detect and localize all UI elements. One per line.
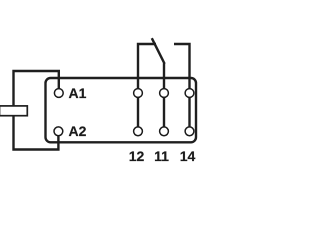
coil rectangle <box>0 106 27 116</box>
terminal 14 bottom <box>185 127 194 136</box>
terminal A2 <box>54 127 63 136</box>
svg-text:A2: A2 <box>69 123 87 139</box>
movable contact (diagonal) <box>152 38 165 64</box>
svg-text:12: 12 <box>129 148 145 164</box>
terminal 12 bottom <box>134 127 143 136</box>
svg-text:A1: A1 <box>69 85 87 101</box>
svg-text:11: 11 <box>154 148 169 164</box>
svg-text:14: 14 <box>180 148 196 164</box>
terminal 11 top <box>160 89 169 98</box>
wire coil loop A1-A2 <box>14 71 59 150</box>
terminal 12 top <box>134 89 143 98</box>
terminal A1 <box>54 89 63 98</box>
relay body outline <box>46 78 197 142</box>
terminal 11 bottom <box>160 127 169 136</box>
terminal 14 top <box>185 89 194 98</box>
wire 11 common <box>163 63 165 131</box>
wire 12 with NC contact bar <box>138 44 156 131</box>
wire 14 with NO contact bar <box>174 44 190 131</box>
